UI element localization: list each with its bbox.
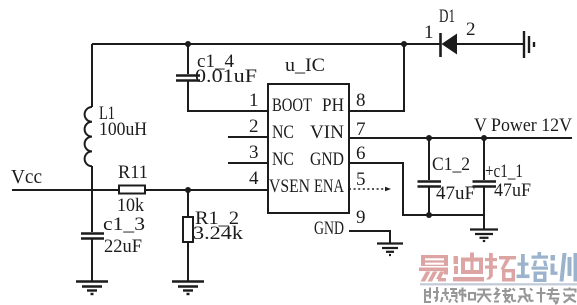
svg-text:BOOT: BOOT [272,95,312,116]
svg-text:3: 3 [249,142,259,163]
wire R1_2 branch down [187,190,189,217]
svg-text:47uF: 47uF [494,180,531,201]
svg-text:9: 9 [356,207,366,228]
node junction c1_4 top [185,41,191,47]
resistor R1_2 [183,217,193,242]
wire c1_4 to pin1 BOOT [188,81,268,111]
wire pin6 GND to cap bottom rail [349,163,484,215]
svg-text:VSEN: VSEN [269,176,310,197]
node junction R1_2 on Vcc rail [185,187,191,193]
resistor R11 [119,186,145,194]
svg-text:6: 6 [356,143,366,164]
ground G4 under c1_1 [470,230,498,242]
svg-text:2: 2 [249,116,259,137]
svg-text:V Power 12V: V Power 12V [474,115,572,136]
capacitor C1_2 [418,182,442,187]
ground G3 under pin9 [377,244,403,256]
svg-text:u_IC: u_IC [285,55,325,76]
svg-text:C1_2: C1_2 [432,154,470,175]
node junction C1_2 bottom rail [426,212,432,218]
node junction c1_1 top [481,135,487,141]
capacitor c1_3 [81,234,104,239]
svg-text:7: 7 [356,119,366,140]
svg-text:3.24k: 3.24k [193,223,244,244]
wire pin7 VIN power rail [349,137,572,139]
wire pin9 GND to ground [349,231,390,243]
ground G1 under c1_3 [76,282,108,295]
svg-text:NC: NC [272,122,294,143]
diode D1 cathode bar [439,33,442,57]
slogan char 专 [547,288,560,304]
wire pin8 PH to top rail [349,44,404,111]
slogan char 射 [424,287,439,302]
svg-text:PH: PH [322,95,344,116]
svg-text:VIN: VIN [310,122,344,143]
slogan char 线 [494,288,511,303]
svg-text:1: 1 [424,22,434,43]
svg-text:NC: NC [272,149,294,170]
wire top rail [92,43,440,45]
inductor L1 [85,107,92,166]
slogan char 频 [441,288,458,303]
wire c1_1 branch down [483,138,485,180]
watermark char 易 [419,255,448,282]
ground G2 under R1_2 [172,282,204,295]
watermark char 拓 [485,253,516,282]
svg-text:100uH: 100uH [99,119,147,140]
svg-text:10k: 10k [117,195,144,216]
svg-text:c1_3: c1_3 [103,214,145,235]
wire pin2 NC stub [228,136,268,138]
wire pin5 arrowhead [385,187,391,191]
wire Vcc rail [12,189,268,191]
svg-text:D1: D1 [439,6,455,27]
svg-text:GND: GND [310,149,344,170]
capacitor c1_4 [176,76,200,81]
capacitor c1_1 polarized [473,182,497,187]
watermark char 训 [551,253,577,282]
svg-text:ENA: ENA [314,176,344,197]
svg-text:+c1_1: +c1_1 [485,161,523,182]
svg-text:22uF: 22uF [104,236,142,257]
svg-text:8: 8 [356,90,366,111]
svg-text:1: 1 [249,90,259,111]
svg-text:47uF: 47uF [436,183,475,204]
svg-text:GND: GND [314,218,344,239]
wire c1_3 to ground [91,239,93,281]
watermark divider rule [420,283,577,285]
slogan char 设 [512,289,529,303]
wire c1_3 branch down [91,190,93,232]
watermark slogan 射频和天线设计专家 gray [424,287,576,304]
slogan char 计 [530,288,546,303]
watermark char 迪 [453,253,484,282]
wire D1 anode to ground [457,43,523,45]
node junction pin8 top rail [401,41,407,47]
svg-text:2: 2 [466,19,476,40]
svg-text:Vcc: Vcc [11,166,42,188]
wire C1_2 branch down [428,138,430,180]
svg-text:4: 4 [249,168,259,189]
slogan char 家 [564,288,577,303]
svg-text:0.01uF: 0.01uF [195,66,257,87]
svg-text:R11: R11 [118,162,148,183]
op-amp u_IC box [268,84,349,213]
slogan char 天 [477,290,492,303]
wire left vertical from top rail to L1 [91,44,93,107]
wire R1_2 to ground [187,242,189,281]
wire c1_4 branch down [187,44,189,74]
svg-text:5: 5 [356,169,366,190]
diode D1 triangle [442,34,458,55]
wire pin5 ENA dotted stub [349,188,386,190]
ground G5 rotated at D1 [524,31,534,58]
wire L1 bottom to Vcc rail [91,166,93,190]
watermark logo 易迪拓培训 pink+blue [419,252,577,285]
node junction C1_2 top [426,135,432,141]
wire C1_2 bottom [428,187,430,215]
wire pin3 NC stub [228,162,268,164]
watermark char 培 [517,252,549,282]
wire c1_1 to ground [483,187,485,229]
slogan char 和 [459,288,476,303]
